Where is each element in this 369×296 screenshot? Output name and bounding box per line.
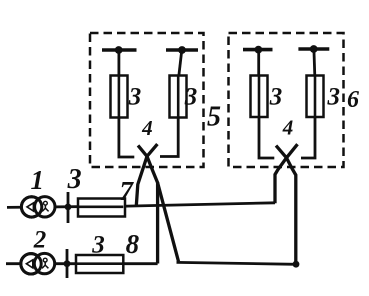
svg-text:8: 8	[126, 229, 140, 259]
fuse 3 (box 5 right): rectangle with through-wire	[170, 76, 187, 118]
busbar tap T with node dot (box 5 right)	[166, 46, 198, 76]
changeover switch 4 (box 6) stroke C: left fuse to line 8b with riser	[276, 146, 296, 264]
svg-text:6: 6	[347, 87, 359, 113]
changeover switch 4 (box 5) stroke A: left fuse to line 8	[138, 145, 158, 263]
svg-text:3: 3	[91, 232, 105, 259]
lead + L-bend below left fuse (box 5)	[119, 118, 134, 158]
junction tick + dot after transformer 1	[65, 192, 72, 223]
wire line 8b (horizontal right part to cabinet 6)	[177, 262, 297, 264]
transformer 2 (two overlapping circles, delta / wye symbols)	[21, 253, 55, 274]
svg-text:4: 4	[282, 116, 294, 140]
changeover switch 4 (box 5) stroke B: right fuse to line 7	[136, 144, 157, 206]
svg-text:3: 3	[326, 84, 340, 111]
fuse 3 (line 7, horizontal): rectangle with through-wire	[78, 199, 125, 217]
changeover switch 4 (box 6) stroke D: right fuse to line 7 end riser	[275, 144, 298, 203]
fuse 3 (box 6 right): rectangle with through-wire	[307, 76, 324, 118]
busbar tap T with node dot (box 6 right)	[298, 45, 329, 76]
svg-text:3: 3	[184, 84, 198, 111]
lead + L-bend below right fuse (box 6)	[301, 117, 315, 158]
fuse 3 (box 6 left): rectangle with through-wire	[251, 76, 268, 118]
svg-text:7: 7	[120, 176, 135, 206]
svg-text:2: 2	[33, 227, 47, 254]
fuse 3 (line 8, horizontal): rectangle with through-wire	[76, 255, 123, 273]
junction dot on line 8b	[293, 261, 300, 268]
cabinet box 6 (dashed)	[229, 33, 344, 167]
fuse 3 (box 5 left): rectangle with through-wire	[111, 76, 128, 118]
junction tick + dot after transformer 2	[64, 249, 71, 278]
lead + L-bend below left fuse (box 6)	[259, 117, 274, 158]
wire line 7 (transformer 1 feeder, horizontal)	[7, 203, 275, 208]
wire line 8a (transformer 2 feeder, horizontal left part)	[6, 262, 158, 265]
svg-text:5: 5	[207, 101, 221, 132]
cabinet box 5 (dashed)	[90, 33, 204, 167]
changeover switch 4 (box 5) stroke A branch: diagonal to line 8b	[158, 183, 179, 262]
busbar tap T with node dot (box 6 left)	[243, 46, 273, 76]
svg-text:3: 3	[128, 84, 142, 111]
svg-text:1: 1	[30, 165, 44, 195]
svg-text:3: 3	[67, 164, 82, 195]
svg-text:3: 3	[269, 84, 283, 111]
svg-text:4: 4	[141, 116, 153, 140]
busbar tap T with node dot (box 5 left)	[102, 46, 137, 76]
transformer 1 (two overlapping circles, delta / wye symbols)	[21, 197, 55, 217]
lead + L-bend below right fuse (box 5)	[160, 118, 178, 157]
